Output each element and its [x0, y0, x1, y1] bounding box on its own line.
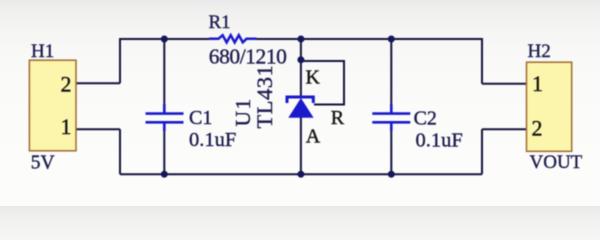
svg-text:2: 2 — [61, 72, 72, 97]
junction bottom rail / C1 — [161, 171, 168, 178]
wire U1 reference loop — [301, 61, 344, 105]
junction top rail / U1 K — [297, 36, 304, 43]
junction bottom rail / C2 — [388, 171, 395, 178]
wire bottom rail — [120, 173, 482, 175]
wire left vertical from H1 pin 2 to top rail — [119, 38, 121, 83]
capacitor C1 — [146, 104, 184, 131]
connector H1 body — [29, 60, 76, 151]
wire right vertical from H2 pin 2 to bottom rail — [481, 129, 483, 174]
wire U1 anode branch — [300, 117, 302, 174]
svg-text:H1: H1 — [31, 41, 54, 62]
svg-text:A: A — [306, 125, 321, 147]
resistor R1 — [209, 35, 257, 42]
svg-text:K: K — [306, 67, 321, 89]
junction bottom rail / U1 A — [297, 171, 304, 178]
junction top rail / C1 — [161, 36, 168, 43]
wire left vertical from H1 pin 1 to bottom rail — [119, 129, 121, 174]
junction top rail / C2 — [388, 36, 395, 43]
svg-text:VOUT: VOUT — [530, 152, 583, 173]
wire H1 pin 1 stub — [76, 128, 120, 130]
svg-text:5V: 5V — [31, 153, 55, 174]
capacitor C2 — [372, 104, 410, 131]
svg-text:C1: C1 — [189, 107, 212, 129]
svg-text:R: R — [331, 107, 345, 129]
svg-text:C2: C2 — [414, 108, 437, 130]
wire H1 pin 2 stub — [76, 82, 120, 84]
svg-text:1: 1 — [532, 71, 543, 96]
wire C1 branch bottom — [163, 124, 165, 175]
wire U1 cathode branch — [300, 39, 302, 96]
wire H2 pin 2 stub — [482, 128, 527, 130]
svg-text:0.1uF: 0.1uF — [416, 130, 463, 152]
wire right vertical from top rail to H2 pin 1 — [481, 38, 483, 84]
wire C2 branch bottom — [390, 124, 392, 175]
op-amp U1 TL431 shunt regulator symbol — [287, 97, 314, 118]
wire C1 branch top — [163, 39, 165, 112]
svg-text:H2: H2 — [528, 41, 551, 62]
wire top rail right of R1 — [256, 38, 482, 40]
svg-text:0.1uF: 0.1uF — [189, 129, 236, 151]
svg-text:1: 1 — [61, 114, 72, 139]
junction U1 K / reference loop — [297, 56, 304, 63]
connector H2 body — [527, 62, 572, 151]
wire C2 branch top — [390, 39, 392, 112]
svg-text:R1: R1 — [209, 12, 231, 33]
svg-text:TL431: TL431 — [252, 65, 277, 129]
svg-text:2: 2 — [532, 116, 543, 141]
wire H2 pin 1 stub — [482, 83, 527, 85]
wire top rail left of R1 — [120, 38, 210, 40]
